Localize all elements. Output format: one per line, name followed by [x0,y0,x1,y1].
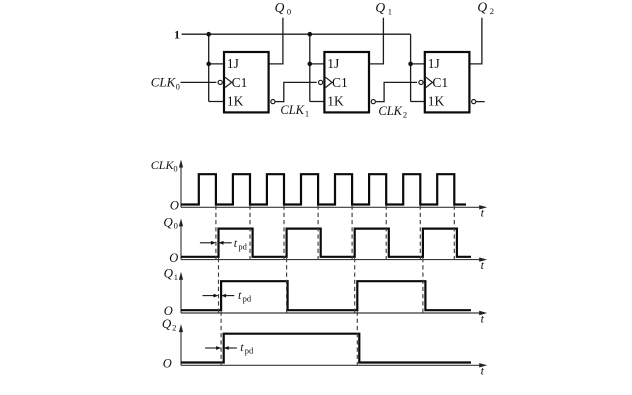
svg-text:2: 2 [403,110,407,120]
svg-text:O: O [164,304,173,318]
svg-text:pd: pd [243,293,252,303]
svg-text:CLK: CLK [378,104,402,118]
svg-text:C1: C1 [432,75,448,90]
svg-text:1: 1 [174,272,178,282]
svg-text:1: 1 [174,28,180,42]
svg-text:Q: Q [164,266,174,281]
svg-text:1J: 1J [327,56,339,71]
svg-text:1: 1 [305,109,309,119]
svg-text:1K: 1K [227,94,244,109]
svg-text:pd: pd [245,346,254,356]
svg-text:pd: pd [238,241,247,251]
svg-text:0: 0 [174,221,178,231]
svg-text:1J: 1J [428,56,440,71]
svg-text:1K: 1K [327,94,344,109]
svg-text:Q: Q [375,0,385,15]
svg-text:2: 2 [172,322,176,332]
svg-text:O: O [169,251,178,265]
svg-text:0: 0 [173,163,177,173]
svg-text:C1: C1 [332,75,348,90]
svg-text:1J: 1J [227,56,239,71]
svg-text:CLK: CLK [151,158,175,172]
svg-text:Q: Q [275,0,285,15]
svg-text:CLK: CLK [151,75,177,90]
svg-text:1K: 1K [428,94,445,109]
svg-text:1: 1 [388,7,392,17]
svg-text:Q: Q [163,214,173,229]
svg-text:0: 0 [176,82,180,92]
svg-text:O: O [163,357,172,371]
svg-text:CLK: CLK [280,103,304,117]
svg-text:0: 0 [287,7,291,17]
svg-text:O: O [170,199,179,213]
svg-text:Q: Q [162,316,172,331]
svg-text:2: 2 [490,6,494,16]
svg-text:Q: Q [477,0,487,14]
svg-text:C1: C1 [232,75,248,90]
